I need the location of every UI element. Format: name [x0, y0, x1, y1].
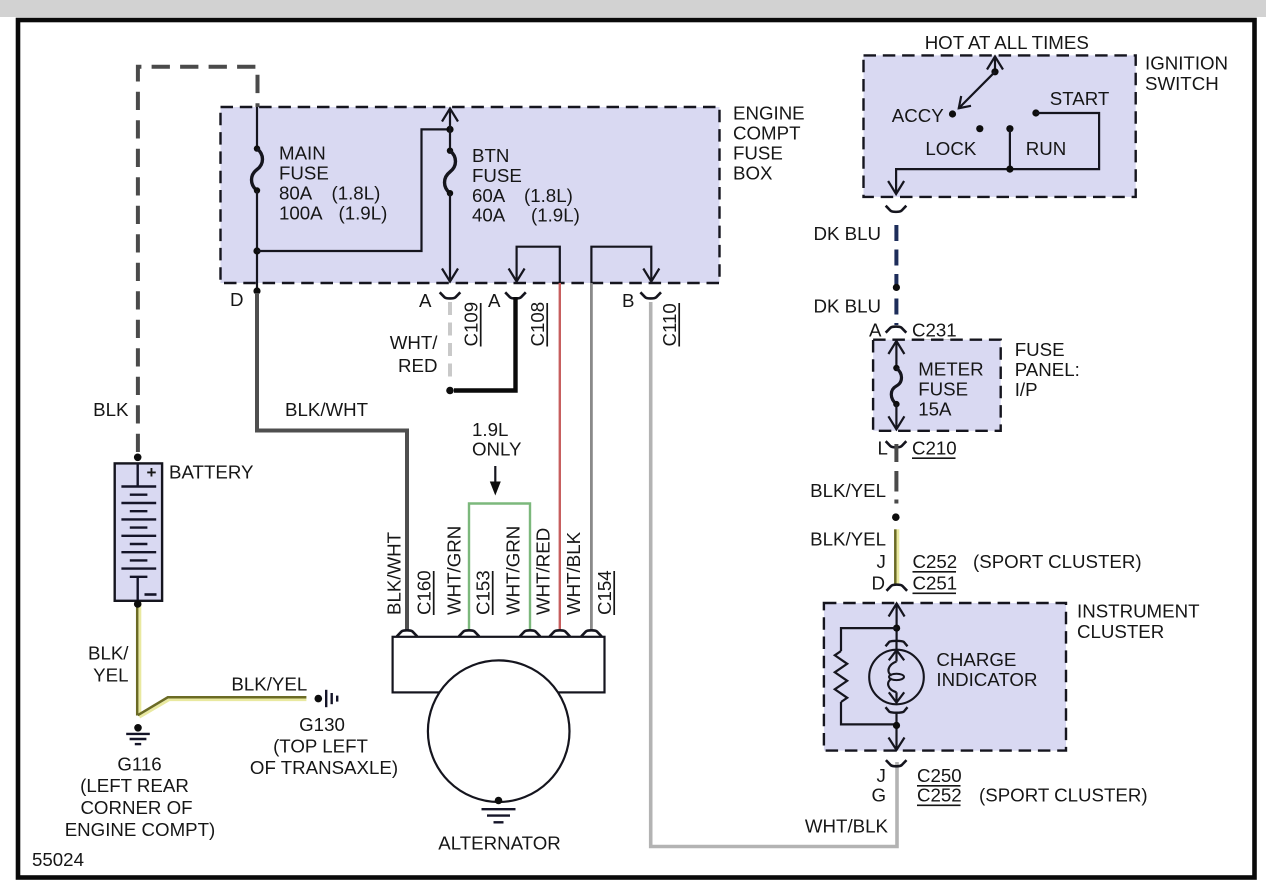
svg-text:C160: C160	[414, 570, 435, 615]
wire WHT/BLK from B to instrument cluster (bottom run)	[651, 302, 897, 847]
svg-text:1.9L: 1.9L	[472, 419, 508, 440]
svg-text:HOT AT ALL TIMES: HOT AT ALL TIMES	[925, 32, 1089, 53]
svg-text:BOX: BOX	[733, 162, 773, 183]
label FUSE PANEL: I/P	[1015, 339, 1080, 400]
wire staple to terminal A C108	[509, 247, 560, 283]
label INSTRUMENT CLUSTER	[1077, 601, 1200, 643]
svg-text:RED: RED	[398, 355, 437, 376]
svg-text:A: A	[419, 290, 432, 311]
fuse BTN FUSE	[442, 109, 580, 282]
label C153 (rotated)	[473, 570, 494, 615]
wire link main fuse to BTN fuse	[253, 126, 453, 255]
connector D C251	[872, 573, 958, 594]
fuse METER FUSE 15A	[888, 341, 983, 429]
wire BLK dashed from battery to fuse box	[138, 67, 258, 452]
connector below cluster	[886, 760, 907, 766]
connector A C231	[869, 320, 957, 341]
instrument cluster box (lavender)	[824, 603, 1066, 751]
alternator pin bracket C160	[397, 630, 418, 636]
svg-text:(1.9L): (1.9L)	[339, 202, 388, 223]
label ENGINE COMPT FUSE BOX	[733, 103, 805, 184]
ground G116	[65, 724, 216, 840]
wire DK BLU dashed	[894, 217, 898, 326]
svg-text:80A: 80A	[279, 182, 313, 203]
svg-text:BLK: BLK	[93, 399, 129, 420]
svg-text:DK BLU: DK BLU	[813, 296, 881, 317]
svg-text:40A: 40A	[472, 205, 506, 226]
svg-text:(TOP LEFT: (TOP LEFT	[273, 736, 368, 757]
node D	[230, 287, 261, 310]
svg-text:MAIN: MAIN	[279, 143, 326, 164]
wire START to RUN bus	[896, 113, 1099, 194]
svg-text:BLK/YEL: BLK/YEL	[810, 529, 886, 550]
svg-text:BATTERY: BATTERY	[169, 462, 254, 483]
svg-text:FUSE: FUSE	[1015, 339, 1065, 360]
gray top band	[0, 0, 1266, 17]
svg-text:C109: C109	[461, 302, 482, 347]
svg-text:BLK/WHT: BLK/WHT	[384, 532, 405, 615]
svg-text:G: G	[872, 785, 887, 806]
svg-text:FUSE: FUSE	[279, 163, 329, 184]
node on BLK/YEL	[892, 513, 900, 521]
svg-text:55024: 55024	[32, 849, 84, 870]
svg-text:C251: C251	[913, 573, 958, 594]
contact RUN	[1006, 125, 1013, 132]
svg-text:FUSE: FUSE	[472, 165, 522, 186]
battery B1	[115, 454, 162, 601]
svg-text:(SPORT CLUSTER): (SPORT CLUSTER)	[979, 785, 1148, 806]
svg-text:INSTRUMENT: INSTRUMENT	[1077, 601, 1200, 622]
svg-text:(1.8L): (1.8L)	[332, 182, 381, 203]
svg-text:D: D	[872, 573, 886, 594]
svg-text:C231: C231	[912, 320, 957, 341]
contact LOCK	[976, 125, 983, 132]
alternator pin bracket WHT/GRN 1	[459, 630, 480, 636]
svg-text:WHT/GRN: WHT/GRN	[444, 526, 465, 615]
svg-text:LOCK: LOCK	[925, 138, 976, 159]
wire BLK/YEL solid to C251	[895, 529, 898, 584]
wire BLK/YEL dashed below C210	[894, 444, 898, 504]
svg-text:BTN: BTN	[472, 145, 509, 166]
connector J C250	[877, 765, 962, 786]
svg-text:PANEL:: PANEL:	[1015, 359, 1080, 380]
wire BLK/YEL battery to G116	[134, 600, 307, 717]
svg-text:C153: C153	[473, 570, 494, 615]
svg-text:(SPORT CLUSTER): (SPORT CLUSTER)	[973, 551, 1142, 572]
charge indicator lamp	[869, 641, 924, 750]
wire WHT/RED to alternator	[559, 283, 561, 630]
resistor branch	[835, 628, 897, 724]
svg-text:15A: 15A	[918, 399, 952, 420]
svg-text:COMPT: COMPT	[733, 123, 800, 144]
alternator pin bracket WHT/GRN 2	[520, 630, 541, 636]
svg-text:C252: C252	[917, 785, 962, 806]
svg-text:J: J	[877, 551, 886, 572]
connector A C108	[488, 290, 548, 347]
svg-text:C250: C250	[917, 765, 962, 786]
contact START	[1032, 109, 1039, 116]
svg-text:G130: G130	[299, 714, 345, 735]
wire black C108 to junction	[454, 297, 516, 391]
svg-text:I/P: I/P	[1015, 379, 1038, 400]
node junction 1.8L/1.9L	[446, 387, 454, 395]
label CHARGE INDICATOR	[936, 649, 1037, 690]
svg-text:B: B	[622, 290, 634, 311]
wire WHT/GRN staple (1.9L only)	[469, 504, 530, 630]
svg-text:BLK/: BLK/	[88, 643, 129, 664]
svg-text:C210: C210	[912, 438, 957, 459]
svg-text:G116: G116	[117, 754, 161, 775]
svg-text:ENGINE: ENGINE	[733, 103, 805, 124]
fuse panel box (lavender)	[873, 340, 1001, 431]
svg-text:A: A	[869, 320, 882, 341]
svg-text:BLK/WHT: BLK/WHT	[285, 399, 368, 420]
svg-text:C252: C252	[913, 551, 958, 572]
fuse MAIN FUSE	[252, 107, 388, 291]
svg-text:ONLY: ONLY	[472, 439, 522, 460]
svg-text:D: D	[230, 289, 244, 310]
svg-text:+: +	[147, 463, 157, 482]
svg-text:(1.9L): (1.9L)	[531, 205, 580, 226]
svg-text:60A: 60A	[472, 185, 506, 206]
connector at ignition switch output	[886, 206, 907, 212]
svg-text:CLUSTER: CLUSTER	[1077, 621, 1164, 642]
connector B C110	[622, 290, 680, 347]
wire staple to terminal B C110	[591, 247, 659, 283]
svg-text:WHT/BLK: WHT/BLK	[563, 531, 584, 615]
label C160 (rotated)	[414, 570, 435, 615]
svg-text:BLK/YEL: BLK/YEL	[810, 480, 886, 501]
svg-text:J: J	[877, 765, 886, 786]
svg-text:ENGINE COMPT): ENGINE COMPT)	[65, 819, 216, 840]
ground G130	[250, 690, 398, 778]
svg-text:OF TRANSAXLE): OF TRANSAXLE)	[250, 757, 398, 778]
label C154 (rotated)	[594, 570, 615, 615]
engine compt fuse box (lavender)	[221, 107, 720, 283]
svg-text:WHT/BLK: WHT/BLK	[805, 816, 889, 837]
svg-text:C154: C154	[594, 570, 615, 615]
label IGNITION SWITCH	[1145, 53, 1228, 95]
svg-text:START: START	[1050, 88, 1110, 109]
wire BLK/WHT from D to alternator	[257, 293, 407, 630]
svg-text:METER: METER	[918, 358, 983, 379]
ground at alternator	[482, 797, 516, 823]
connector A C109	[419, 290, 482, 347]
svg-text:INDICATOR: INDICATOR	[936, 669, 1037, 690]
svg-text:WHT/RED: WHT/RED	[533, 528, 554, 615]
wire WHT/BLK to alternator	[590, 283, 593, 630]
svg-text:WHT/GRN: WHT/GRN	[503, 526, 524, 615]
svg-text:ALTERNATOR: ALTERNATOR	[438, 833, 561, 854]
ignition switch box (lavender)	[864, 55, 1136, 197]
svg-text:FUSE: FUSE	[918, 379, 968, 400]
ignition switch S1	[888, 57, 1109, 195]
svg-text:100A: 100A	[279, 202, 323, 223]
svg-text:(LEFT REAR: (LEFT REAR	[80, 775, 189, 796]
wire WHT/RED dashed (C109, 1.8L)	[448, 302, 452, 384]
alternator circle	[428, 660, 570, 802]
connector J C252 (SPORT CLUSTER)	[877, 551, 1142, 572]
connector G C252 (SPORT CLUSTER)	[872, 785, 1148, 806]
alternator body	[393, 637, 605, 693]
label 1.9L ONLY with arrow	[472, 419, 522, 496]
connector L C210	[878, 438, 957, 459]
wire into cluster with up arrow	[889, 604, 905, 642]
svg-text:DK BLU: DK BLU	[813, 223, 881, 244]
svg-text:CORNER OF: CORNER OF	[80, 797, 192, 818]
svg-text:(1.8L): (1.8L)	[524, 185, 573, 206]
svg-text:WHT/: WHT/	[390, 332, 439, 353]
alternator pin bracket WHT/RED	[550, 630, 571, 636]
svg-text:FUSE: FUSE	[733, 143, 783, 164]
svg-text:ACCY: ACCY	[892, 105, 944, 126]
svg-text:A: A	[488, 290, 501, 311]
svg-text:YEL: YEL	[93, 665, 128, 686]
svg-text:IGNITION: IGNITION	[1145, 53, 1228, 74]
svg-text:C108: C108	[527, 302, 548, 347]
alternator pin bracket WHT/BLK	[581, 630, 602, 636]
svg-text:BLK/YEL: BLK/YEL	[231, 674, 307, 695]
svg-text:C110: C110	[659, 303, 680, 346]
svg-text:RUN: RUN	[1026, 138, 1067, 159]
svg-text:SWITCH: SWITCH	[1145, 73, 1219, 94]
node on DK BLU	[893, 284, 900, 291]
svg-text:CHARGE: CHARGE	[936, 649, 1016, 670]
